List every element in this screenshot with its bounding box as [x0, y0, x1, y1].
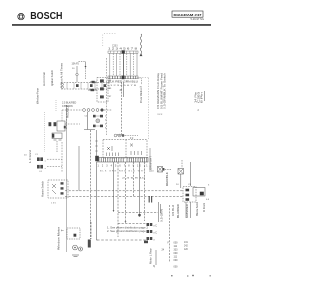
riser H	[144, 162, 146, 221]
cross wire lower	[65, 196, 183, 198]
riser F	[133, 162, 135, 196]
dashed feeder line	[106, 58, 108, 135]
connector bar C203	[108, 50, 138, 53]
feed wire w arrow	[79, 62, 87, 81]
svg-text:GRN/RED: GRN/RED	[185, 204, 189, 218]
svg-text:x C: x C	[154, 233, 158, 235]
relay feed wires	[88, 81, 97, 91]
riser ends	[97, 238, 98, 240]
svg-text:2. See ground distribution pag: 2. See ground distribution page 4	[107, 230, 149, 233]
inline connector C6 with X	[158, 167, 173, 173]
connector C1 pins upper	[37, 157, 62, 162]
branch wire mid2	[118, 223, 152, 225]
connector C1 pins lower	[37, 165, 62, 170]
svg-text:BLK GRN RED BLU WHT: BLK GRN RED BLU WHT	[100, 171, 146, 173]
svg-text:Master Switch: Master Switch	[41, 180, 45, 197]
connector C2 bubble row	[62, 109, 112, 112]
branch wire mid	[118, 212, 158, 214]
svg-text:15A F5: 15A F5	[72, 63, 80, 66]
relay pin labels	[109, 80, 112, 98]
Bosch logo emblem	[18, 13, 24, 19]
small dotted column	[55, 100, 57, 112]
header rule	[12, 24, 211, 26]
svg-text:R Front: R Front	[202, 203, 206, 212]
svg-text:BLU/RED: BLU/RED	[176, 204, 180, 218]
cross wire upper	[65, 190, 183, 192]
title box	[172, 11, 203, 17]
riser I (left)	[66, 105, 68, 252]
circuit breaker CB1 box	[52, 133, 62, 152]
svg-text:BLK RED GRN BLU: BLK RED GRN BLU	[108, 81, 138, 84]
svg-text:0.5 GRN: 0.5 GRN	[161, 209, 164, 222]
block top connector bubbles	[114, 134, 138, 137]
riser B	[96, 162, 98, 238]
relay K2 contact cluster	[84, 112, 103, 130]
svg-text:3): 3)	[153, 265, 155, 268]
harness boundary right	[137, 78, 149, 141]
connector pin bar of S2	[97, 158, 148, 163]
svg-text:000: 000	[174, 259, 179, 262]
ignition switch bar	[61, 83, 109, 90]
svg-text:Window Switch: Window Switch	[195, 202, 199, 216]
svg-text:1 3 5: 1 3 5	[51, 203, 57, 205]
svg-text:Hot At All Times: Hot At All Times	[60, 62, 64, 84]
svg-text:5-29-97 NG: 5-29-97 NG	[190, 17, 204, 21]
rear motor connector C8 rows	[147, 223, 158, 242]
second code column	[184, 242, 189, 251]
connector C7 with X	[178, 169, 184, 189]
power window relay K1	[97, 78, 108, 103]
fuse F5	[76, 66, 78, 82]
svg-text:RED/BLK: RED/BLK	[66, 105, 70, 118]
window motor M1 cluster	[67, 228, 91, 257]
svg-text:Window Motor: Window Motor	[57, 227, 61, 250]
riser D	[117, 162, 119, 237]
switch S1 contacts	[49, 121, 81, 131]
svg-text:Ignition Switch: Ignition Switch	[50, 69, 54, 86]
junction pin labels	[105, 116, 107, 130]
svg-text:GRN/WHT: GRN/WHT	[149, 156, 153, 170]
svg-text:1 2 3 4 5 6 7 8: 1 2 3 4 5 6 7 8	[108, 48, 138, 51]
svg-text:L Front: L Front	[28, 150, 32, 163]
junction verticals	[158, 202, 160, 222]
svg-text:Power Window: Power Window	[139, 88, 143, 103]
riser E	[125, 162, 127, 221]
stub to fusible link	[138, 78, 142, 85]
fusible link FL1	[140, 34, 142, 56]
short riser	[61, 110, 63, 121]
svg-text:000: 000	[174, 266, 179, 269]
riser K (central box left edge)	[96, 130, 98, 156]
footer dots	[171, 275, 173, 276]
junction ticks	[149, 196, 150, 203]
dotted riser	[44, 112, 46, 152]
wires down from bundle	[122, 82, 124, 135]
left end blob	[95, 156, 99, 161]
svg-text:0.5 BLU: 0.5 BLU	[172, 205, 175, 216]
master switch S2 dashed box	[103, 140, 147, 159]
svg-text:Hot in Run: Hot in Run	[42, 71, 46, 86]
connector bar lower	[108, 76, 138, 80]
svg-text:RED/BLK: RED/BLK	[165, 172, 169, 186]
svg-text:BOSCH: BOSCH	[30, 11, 62, 22]
wire to right bottom	[97, 239, 148, 241]
svg-text:Motor L Rear: Motor L Rear	[149, 248, 153, 264]
code table	[174, 242, 179, 269]
riser from cluster	[61, 142, 63, 172]
faint harness boundary corner	[103, 34, 116, 47]
feeds into right switch	[181, 160, 183, 168]
svg-text:Window Fuse: Window Fuse	[36, 87, 40, 104]
riser A	[90, 130, 92, 222]
svg-text:x C: x C	[154, 226, 158, 228]
svg-text:0.5 GRN/BLK To Switch: 0.5 GRN/BLK To Switch	[163, 72, 167, 109]
riser C	[113, 162, 115, 211]
svg-text:DIAGRAM #47: DIAGRAM #47	[174, 13, 202, 17]
svg-text:8 Pin: 8 Pin	[200, 91, 204, 103]
riser J	[78, 146, 80, 191]
wire bundle	[110, 54, 137, 77]
riser G	[139, 162, 141, 217]
